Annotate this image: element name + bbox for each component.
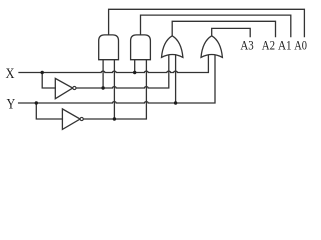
inverter U6 bubble: [80, 117, 83, 120]
wire U1 output to terminal A0: [109, 9, 305, 36]
svg-text:A0: A0: [294, 37, 307, 52]
junction X to U2: [133, 71, 136, 74]
junction Y' to U1: [113, 117, 116, 120]
inverter U5 bubble: [73, 86, 76, 89]
wire AND-gate U1 right input pin: [113, 60, 115, 119]
junction node X feed: [41, 71, 44, 74]
wire inverter U5 input feed from node X: [42, 73, 55, 89]
svg-text:X: X: [6, 66, 15, 82]
wire AND-gate U1 left input pin: [102, 60, 104, 88]
junction Y to U3: [174, 101, 177, 104]
wire U2 output to terminal A1: [141, 15, 291, 36]
AND gate U1: [99, 35, 119, 60]
junction node Y feed: [35, 101, 38, 104]
wire AND-gate U2 left input pin: [134, 60, 136, 73]
svg-text:A2: A2: [262, 37, 275, 52]
inverter U6 triangle: [62, 109, 80, 129]
wire OR-gate U3 right input pin: [175, 55, 177, 103]
svg-text:A1: A1: [278, 37, 292, 52]
junction X' to U1: [101, 86, 104, 89]
wire inverter U6 input feed from node Y: [36, 103, 62, 119]
wire U4 output to terminal A3: [212, 28, 251, 36]
wire U3 output to terminal A2: [172, 21, 275, 36]
AND gate U2: [131, 35, 151, 60]
svg-text:A3: A3: [240, 37, 253, 52]
wire net Y' row: inverter U6 output to AND-gate U2 right pin: [83, 60, 146, 119]
wire net Y row: from input Y to OR-gate U4 right pin: [19, 55, 215, 103]
wire net X' row: inverter U5 output to OR-gate U3 left pin: [76, 55, 169, 88]
svg-text:Y: Y: [7, 96, 16, 112]
inverter U5 triangle: [55, 78, 72, 98]
OR gate U3: [162, 36, 183, 58]
wire net X row: from input X to OR-gate U4 left pin: [19, 55, 208, 72]
OR gate U4: [201, 36, 222, 58]
